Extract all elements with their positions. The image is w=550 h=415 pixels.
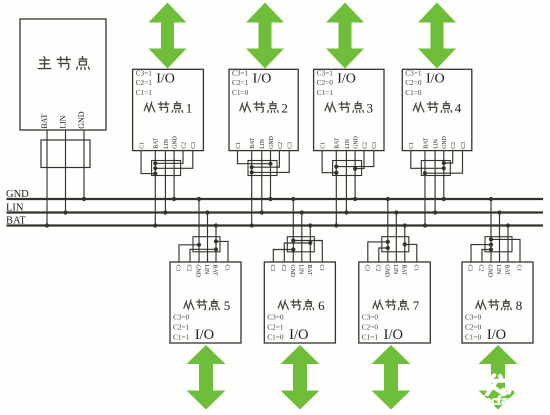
slave node 5 box: [170, 262, 241, 343]
svg-text:C1=0: C1=0: [232, 88, 249, 97]
junction slave 1 C2: [153, 161, 157, 165]
junction slave 2 C1: [268, 162, 272, 166]
junction slave 7 C1: [403, 242, 407, 246]
arrow slave 3: [326, 3, 364, 69]
junction slave 8 C1: [489, 237, 493, 241]
wire slave 3 BAT to bus: [335, 151, 337, 226]
svg-text:LIN: LIN: [59, 115, 68, 129]
svg-text:C3=0: C3=0: [173, 313, 190, 322]
svg-text:LIN: LIN: [203, 265, 209, 275]
svg-text:BAT: BAT: [250, 137, 256, 148]
junction slave 5 C1: [214, 239, 218, 243]
wire slave 7 BAT to bus: [404, 226, 406, 263]
wire slave 7 C3 to GND: [368, 242, 388, 262]
junction slave 8 BAT: [506, 223, 510, 227]
wire slave 2 C3 to BAT: [252, 151, 290, 173]
svg-text:C3=1: C3=1: [317, 68, 334, 77]
junction slave 2 C2: [250, 165, 254, 169]
junction slave 8 GND: [489, 197, 493, 201]
svg-text:C2: C2: [374, 265, 380, 272]
svg-text:C1=0: C1=0: [267, 333, 284, 342]
svg-text:C1=1: C1=1: [136, 88, 153, 97]
junction slave 7 BAT: [403, 223, 407, 227]
svg-text:BAT: BAT: [400, 265, 406, 276]
junction slave 5 LIN: [205, 210, 209, 214]
wire slave 1 LIN to bus: [164, 151, 166, 213]
wire slave 7 C2 to GND: [379, 248, 388, 262]
svg-text:C1=1: C1=1: [317, 88, 334, 97]
junction slave 3 GND: [353, 197, 357, 201]
svg-text:I/O: I/O: [337, 71, 356, 86]
svg-text:C2: C2: [181, 142, 187, 149]
wire slave 5 C2 to BAT: [190, 249, 216, 262]
svg-text:GND: GND: [289, 265, 295, 278]
junction slave 2 LIN: [260, 210, 264, 214]
slave 6 title 从节点 6: [278, 298, 325, 313]
svg-text:GND: GND: [173, 136, 179, 149]
wire slave 2 C2 to BAT: [252, 151, 280, 168]
svg-text:C1=0: C1=0: [465, 333, 482, 342]
svg-text:3: 3: [367, 101, 374, 116]
svg-text:I/O: I/O: [384, 327, 403, 343]
master node U0 box: [20, 19, 106, 130]
svg-text:C1=1: C1=1: [362, 333, 379, 342]
svg-text:GND: GND: [487, 265, 493, 278]
wire slave 2 GND to bus: [270, 151, 272, 199]
wire slave 1 C3 to BAT: [155, 151, 193, 169]
junction slave 8 C3: [489, 243, 493, 247]
svg-text:C2: C2: [280, 265, 286, 272]
wire slave 8 BAT to bus: [507, 226, 509, 263]
slave 4 termination block: [421, 161, 450, 176]
junction slave 4 GND: [442, 197, 446, 201]
wire slave 3 GND to bus: [354, 151, 356, 199]
slave node 7 box: [359, 262, 431, 343]
svg-text:BAT: BAT: [504, 265, 510, 276]
slave 3 title 从节点 3: [325, 101, 373, 116]
svg-text:C1=1: C1=1: [173, 333, 190, 342]
junction slave 1 GND: [172, 197, 176, 201]
svg-text:C3: C3: [372, 142, 378, 149]
svg-text:GND: GND: [442, 136, 448, 149]
svg-text:LIN: LIN: [164, 138, 170, 148]
arrow slave 7: [372, 345, 411, 410]
svg-text:C1: C1: [409, 142, 415, 149]
svg-text:I/O: I/O: [156, 71, 175, 86]
svg-text:I/O: I/O: [195, 327, 214, 343]
wire slave 6 BAT to bus: [309, 226, 311, 263]
svg-text:BAT: BAT: [306, 265, 312, 276]
svg-text:GND: GND: [77, 111, 86, 129]
slave node 3 box: [314, 69, 384, 150]
svg-text:LIN: LIN: [434, 138, 440, 148]
wire slave 5 LIN to bus: [207, 213, 209, 263]
slave 6 termination block: [287, 237, 314, 252]
junction slave 1 C3: [153, 166, 157, 170]
svg-text:GND: GND: [354, 136, 360, 149]
wire slave 6 C3 to GND: [273, 250, 293, 263]
wire slave 8 C2 to GND: [482, 250, 491, 263]
svg-text:C3=0: C3=0: [362, 313, 379, 322]
wire slave 4 GND to bus: [443, 151, 445, 199]
svg-text:C2=1: C2=1: [173, 323, 190, 332]
junction slave 4 C2: [442, 161, 446, 165]
slave 8 title 从节点 8: [476, 298, 522, 313]
junction slave 8 LIN: [497, 210, 501, 214]
svg-text:C3=1: C3=1: [232, 68, 249, 77]
junction slave 4 C1: [442, 166, 446, 170]
watermark 发烧 (white over arrow): [486, 375, 528, 394]
wire slave 4 C3 to BAT: [425, 151, 463, 174]
svg-text:C2=1: C2=1: [232, 78, 249, 87]
svg-text:7: 7: [413, 298, 420, 313]
svg-text:C3=0: C3=0: [267, 313, 284, 322]
wire slave 4 BAT to bus: [424, 151, 426, 226]
slave node 4 box: [402, 69, 472, 150]
junction slave 3 LIN: [344, 210, 348, 214]
svg-text:C1: C1: [321, 142, 327, 149]
slave 4 title 从节点 4: [413, 101, 462, 116]
svg-text:GND: GND: [269, 136, 275, 149]
junction slave 7 GND: [386, 197, 390, 201]
slave 7 title 从节点 7: [373, 298, 420, 313]
slave node 1 box: [133, 69, 204, 150]
svg-text:6: 6: [318, 298, 325, 313]
svg-text:C1=0: C1=0: [405, 88, 422, 97]
junction master GND: [82, 197, 86, 201]
wire slave 4 C1 to GND: [411, 151, 444, 169]
slave node 8 box: [462, 262, 533, 343]
wire slave 2 LIN to bus: [261, 151, 263, 213]
svg-text:C3=1: C3=1: [405, 68, 422, 77]
wire master LIN to bus: [65, 130, 67, 213]
slave 2 title 从节点 2: [240, 101, 288, 116]
arrow slave 1: [149, 3, 187, 69]
wire slave 8 C3 to GND: [471, 245, 491, 262]
wire slave 8 LIN to bus: [499, 213, 501, 263]
junction slave 7 C3: [386, 240, 390, 244]
svg-text:C2=0: C2=0: [362, 323, 379, 332]
master node title 主节点: [38, 56, 89, 69]
wire slave 5 C1 to BAT: [216, 241, 228, 262]
arrow slave 4: [418, 3, 456, 69]
svg-text:C1: C1: [140, 142, 146, 149]
junction slave 2 C3: [250, 170, 254, 174]
slave 1 termination block: [152, 161, 181, 176]
wire master BAT to bus: [46, 130, 48, 226]
slave 3 termination block: [333, 161, 362, 176]
arrow slave 8: [479, 345, 518, 410]
wire slave 7 C1 to BAT: [405, 244, 417, 262]
master termination block: [41, 140, 90, 168]
wire slave 1 C1 to BAT: [141, 151, 155, 174]
wire slave 2 BAT to bus: [251, 151, 253, 226]
slave 2 termination block: [248, 161, 277, 176]
junction slave 3 C2: [353, 167, 357, 171]
svg-text:C1: C1: [236, 142, 242, 149]
junction master LIN: [63, 210, 67, 214]
svg-text:C2: C2: [478, 265, 484, 272]
svg-text:I/O: I/O: [487, 327, 506, 343]
wire slave 7 LIN to bus: [395, 213, 397, 263]
svg-text:BAT: BAT: [40, 114, 49, 129]
junction slave 6 GND: [291, 197, 295, 201]
svg-text:C3: C3: [175, 265, 181, 272]
junction slave 4 LIN: [433, 210, 437, 214]
svg-text:LIN: LIN: [297, 265, 303, 275]
junction slave 3 C1: [334, 171, 338, 175]
svg-text:C3: C3: [269, 265, 275, 272]
junction slave 6 C3: [291, 247, 295, 251]
junction slave 1 BAT: [153, 223, 157, 227]
svg-text:C3=0: C3=0: [465, 313, 482, 322]
wire slave 6 GND to bus: [292, 199, 294, 262]
junction slave 5 C2: [214, 247, 218, 251]
wire slave 5 C3 to GND: [179, 245, 199, 262]
svg-text:elecfans: elecfans: [476, 393, 520, 408]
wire slave 8 C1 to GND: [491, 239, 520, 262]
slave 8 termination block: [485, 237, 512, 252]
junction slave 1 LIN: [163, 210, 167, 214]
svg-text:BAT: BAT: [212, 265, 218, 276]
junction master BAT: [45, 223, 49, 227]
junction slave 2 GND: [268, 197, 272, 201]
svg-text:C2=0: C2=0: [317, 78, 334, 87]
wire master GND to bus: [83, 130, 85, 199]
junction slave 6 LIN: [300, 210, 304, 214]
svg-text:C3: C3: [461, 142, 467, 149]
svg-text:C1: C1: [412, 265, 418, 272]
junction slave 2 BAT: [250, 223, 254, 227]
slave 5 title 从节点 5: [184, 298, 230, 313]
svg-text:2: 2: [281, 101, 288, 116]
junction slave 3 C3: [334, 165, 338, 169]
arrow slave 6: [281, 345, 320, 410]
svg-text:C2=1: C2=1: [136, 78, 153, 87]
svg-text:LIN: LIN: [495, 265, 501, 275]
svg-text:GND: GND: [383, 265, 389, 278]
wire slave 3 C3 to BAT: [336, 151, 374, 167]
junction slave 4 BAT: [423, 223, 427, 227]
junction slave 4 C3: [423, 171, 427, 175]
wire slave 5 GND to bus: [198, 199, 200, 262]
bus line BAT: [7, 224, 544, 226]
svg-text:I/O: I/O: [253, 71, 272, 86]
svg-text:LIN: LIN: [345, 138, 351, 148]
svg-text:C3: C3: [191, 142, 197, 149]
svg-text:C2=1: C2=1: [267, 323, 284, 332]
junction slave 7 C2: [386, 246, 390, 250]
wire slave 6 C2 to BAT: [284, 243, 310, 262]
svg-text:C2: C2: [362, 142, 368, 149]
junction slave 3 BAT: [334, 223, 338, 227]
svg-text:C1: C1: [224, 265, 230, 272]
wire slave 3 C1 to BAT: [322, 151, 336, 173]
svg-text:C2=0: C2=0: [465, 323, 482, 332]
junction slave 1 C1: [153, 172, 157, 176]
wire slave 4 C2 to GND: [444, 151, 453, 163]
junction slave 6 C1: [291, 238, 295, 242]
svg-text:BAT: BAT: [154, 137, 160, 148]
svg-text:C1: C1: [318, 265, 324, 272]
svg-text:GND: GND: [195, 265, 201, 278]
wire slave 4 LIN to bus: [434, 151, 436, 213]
svg-text:C2: C2: [186, 265, 192, 272]
junction slave 5 BAT: [214, 223, 218, 227]
bus line GND: [7, 198, 544, 200]
wire slave 1 BAT to bus: [154, 151, 156, 226]
svg-text:5: 5: [224, 298, 231, 313]
svg-text:C3=1: C3=1: [136, 68, 153, 77]
arrow slave 2: [246, 3, 284, 69]
junction slave 5 C3: [197, 243, 201, 247]
wire slave 1 C2 to BAT: [155, 151, 183, 164]
svg-text:C1: C1: [516, 265, 522, 272]
svg-text:8: 8: [516, 298, 523, 313]
junction slave 5 GND: [197, 197, 201, 201]
junction slave 6 C2: [308, 241, 312, 245]
svg-text:C3: C3: [288, 142, 294, 149]
wire slave 2 C1 to GND: [238, 151, 271, 164]
slave node 6 box: [264, 262, 335, 343]
svg-text:C2: C2: [451, 142, 457, 149]
junction slave 8 C2: [489, 247, 493, 251]
slave 5 termination block: [193, 237, 220, 252]
slave node 2 box: [229, 69, 298, 150]
svg-text:I/O: I/O: [289, 327, 308, 343]
wire slave 8 GND to bus: [490, 199, 492, 262]
wire slave 3 C2 to GND: [355, 151, 364, 169]
svg-text:LIN: LIN: [392, 265, 398, 275]
wire slave 1 GND to bus: [173, 151, 175, 199]
wire slave 5 BAT to bus: [215, 226, 217, 263]
slave 1 title 从节点 1: [144, 101, 192, 116]
svg-text:C2: C2: [278, 142, 284, 149]
wire slave 3 LIN to bus: [345, 151, 347, 213]
svg-text:4: 4: [455, 101, 462, 116]
wire slave 6 C1 to GND: [293, 241, 322, 263]
junction slave 7 LIN: [394, 210, 398, 214]
junction slave 6 BAT: [308, 223, 312, 227]
bus line LIN: [7, 211, 544, 213]
svg-text:LIN: LIN: [260, 138, 266, 148]
svg-text:C3: C3: [467, 265, 473, 272]
wire slave 6 LIN to bus: [301, 213, 303, 263]
svg-text:1: 1: [186, 101, 193, 116]
svg-text:C3: C3: [363, 265, 369, 272]
svg-text:BAT: BAT: [335, 137, 341, 148]
svg-text:I/O: I/O: [426, 71, 445, 86]
arrow slave 5: [187, 345, 226, 410]
svg-text:C2=0: C2=0: [405, 78, 422, 87]
wire slave 7 GND to bus: [387, 199, 389, 262]
slave 7 termination block: [382, 237, 409, 252]
svg-text:BAT: BAT: [423, 137, 429, 148]
